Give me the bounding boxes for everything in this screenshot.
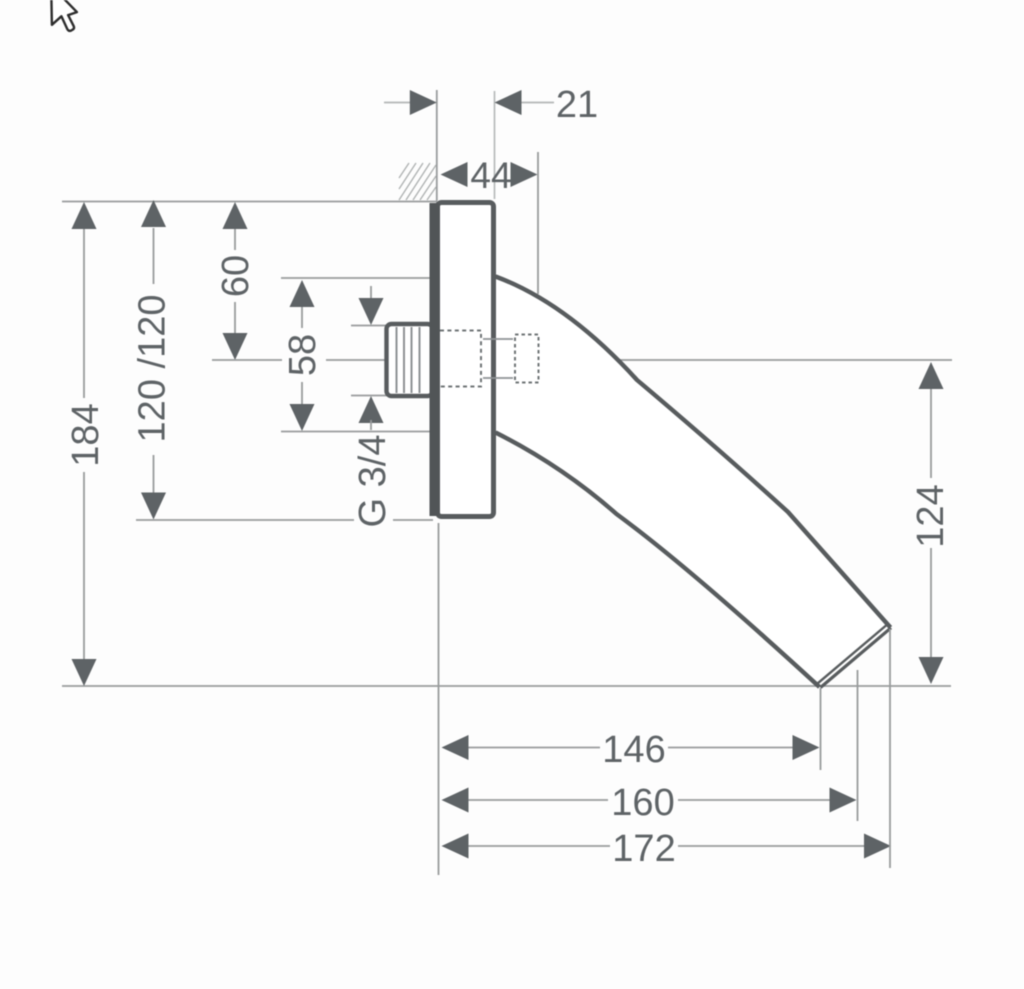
spout body — [496, 277, 891, 688]
cursor pointer icon — [51, 0, 77, 31]
channel ticks — [483, 338, 513, 340]
dimension 60 — [234, 210, 236, 250]
svg-text:21: 21 — [556, 84, 598, 126]
connector thread hatch — [397, 327, 420, 393]
spout axis extension line (left) — [212, 359, 282, 361]
dimension 21 — [384, 102, 554, 104]
baseline reference line — [62, 685, 951, 687]
44 right extension line — [537, 152, 539, 294]
120/120 bottom extension line — [136, 519, 354, 521]
dimension 58 — [301, 306, 303, 328]
dimension 44 — [441, 162, 468, 187]
146 extension line — [820, 688, 822, 770]
hidden water channel (dashed) in plate — [440, 331, 481, 387]
dimension 160 — [467, 799, 608, 801]
svg-text:120 /120: 120 /120 — [132, 295, 174, 443]
dimension 124 — [930, 386, 932, 478]
dimension 172 — [467, 845, 610, 847]
svg-text:58: 58 — [282, 334, 324, 376]
dimension 184 — [83, 210, 85, 398]
svg-text:184: 184 — [65, 403, 107, 466]
bottom dims left extension line — [438, 523, 440, 875]
svg-text:172: 172 — [612, 828, 675, 870]
wall hatching — [399, 163, 436, 200]
top reference line — [62, 201, 437, 203]
dimension 146 — [467, 747, 600, 749]
spout tip end face — [821, 628, 892, 688]
160 extension line — [857, 670, 859, 821]
svg-text:146: 146 — [602, 729, 665, 771]
wall plate thick back edge — [430, 203, 440, 516]
svg-text:160: 160 — [611, 782, 674, 824]
svg-text:124: 124 — [910, 484, 952, 547]
plate front extension line — [494, 91, 496, 199]
svg-text:G 3/4: G 3/4 — [352, 435, 394, 528]
dimension 120 /120 — [153, 228, 155, 284]
connector G3/4 nipple — [387, 324, 433, 396]
wall plate — [438, 203, 494, 517]
172 extension line — [889, 629, 891, 868]
hidden channel (dashed) in spout — [515, 335, 539, 383]
58 top extension line — [281, 277, 430, 279]
58 bottom extension line — [281, 431, 433, 433]
svg-text:44: 44 — [470, 155, 511, 196]
svg-text:60: 60 — [215, 255, 257, 297]
wall surface extension line — [436, 90, 438, 201]
spout axis extension line (right) — [547, 359, 952, 361]
G 3/4 thread callout — [370, 286, 372, 302]
